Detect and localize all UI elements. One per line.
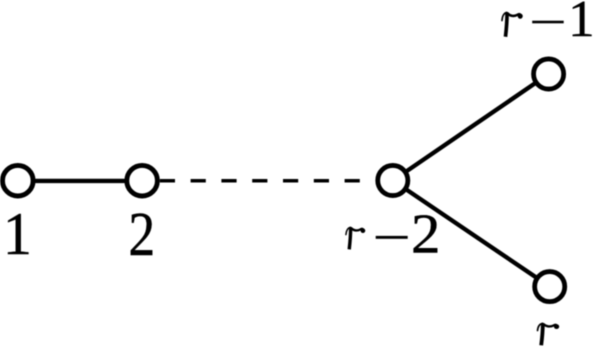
svg-text:2: 2 — [128, 201, 155, 269]
svg-text:2: 2 — [411, 204, 440, 266]
svg-text:1: 1 — [568, 0, 593, 48]
svg-text:1: 1 — [3, 201, 32, 268]
